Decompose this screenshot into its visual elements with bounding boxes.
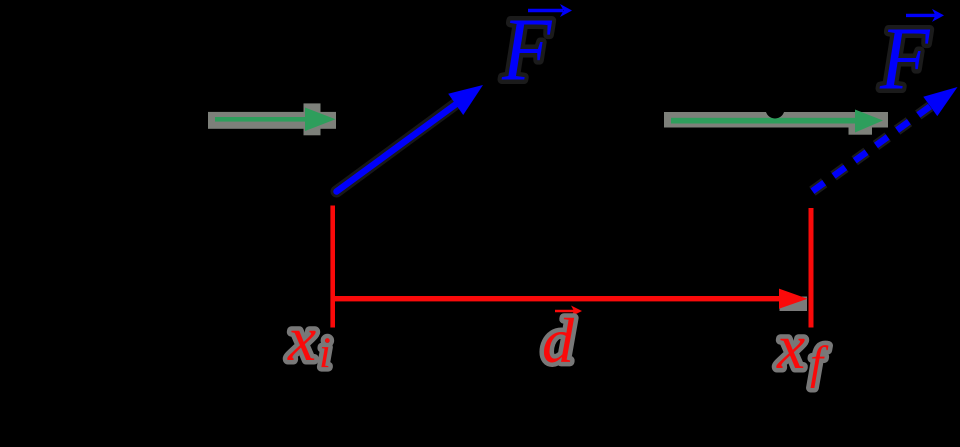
force vector F1 (left solid blue arrow) — [337, 99, 464, 192]
force vector F2 dark halo (dashed) — [812, 107, 930, 192]
svg-text:F: F — [501, 0, 552, 99]
displacement vector d (red horizontal arrow) — [331, 296, 781, 301]
svg-text:d: d — [542, 305, 575, 376]
label vec F (left, blue): overbar arrow — [528, 4, 572, 17]
velocity arrow v2 (right green arrow) — [671, 110, 883, 133]
initial position marker line x_i (red vertical) — [330, 206, 335, 328]
svg-text:i: i — [319, 330, 331, 377]
velocity arrow v1 halo (left, gray casing) — [208, 103, 336, 135]
arrowhead of F2 — [923, 87, 957, 116]
label x_i (red with gray halo) — [287, 303, 331, 377]
velocity arrow v1 (left green arrow) — [215, 108, 336, 132]
label vec F (right, blue): overbar arrow — [906, 9, 944, 22]
force vector F2 (right dashed blue arrow) — [812, 107, 930, 192]
black notch (hidden v label) over right halo — [766, 100, 785, 119]
arrowhead of d — [779, 289, 808, 309]
label x_f (red with gray halo) — [776, 311, 829, 389]
svg-text:x: x — [776, 311, 805, 382]
svg-text:F: F — [879, 9, 930, 109]
arrowhead of F1 — [448, 85, 483, 115]
velocity arrow v2 halo (right, gray casing) — [664, 112, 888, 135]
gray patch under displacement arrowhead — [780, 297, 808, 312]
label vec d (red with gray halo): overbar arrow — [555, 306, 582, 317]
force vector F1 shaft dark halo — [337, 100, 462, 192]
final position marker line x_f (red vertical) — [809, 208, 814, 328]
svg-text:x: x — [287, 303, 316, 374]
